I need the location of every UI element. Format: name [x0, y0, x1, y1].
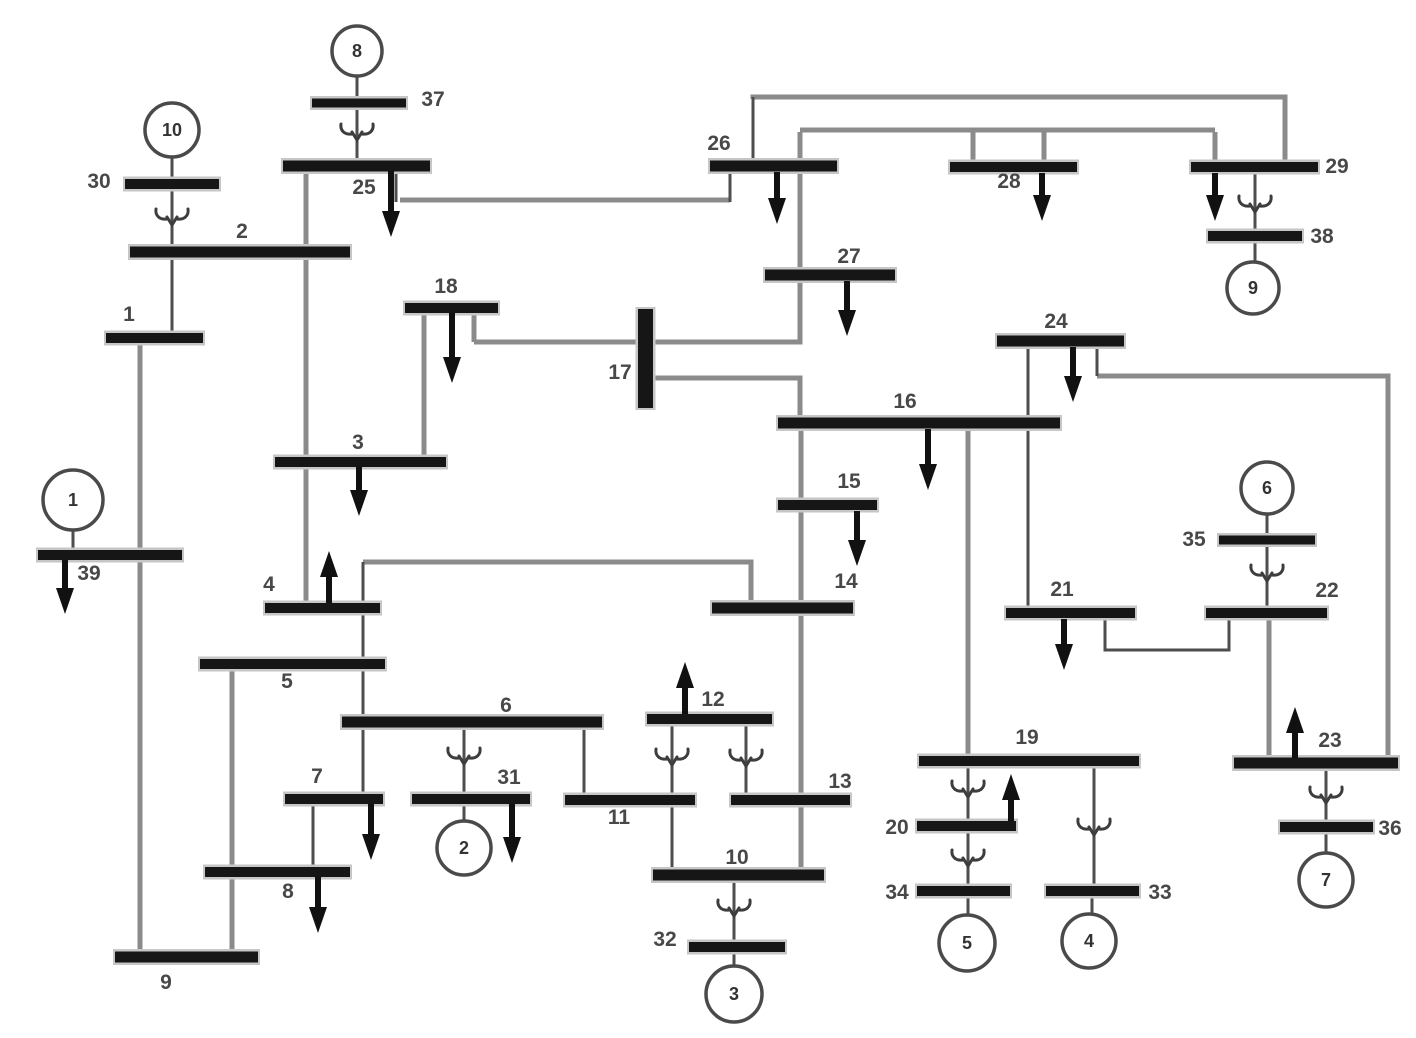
svg-text:36: 36 — [1378, 817, 1401, 840]
svg-text:6: 6 — [500, 694, 512, 717]
svg-text:24: 24 — [1044, 310, 1068, 333]
svg-text:23: 23 — [1318, 729, 1341, 752]
svg-text:8: 8 — [352, 41, 362, 61]
svg-text:25: 25 — [352, 176, 376, 199]
svg-text:9: 9 — [160, 971, 172, 994]
svg-text:38: 38 — [1310, 225, 1334, 248]
svg-text:22: 22 — [1315, 579, 1338, 602]
svg-text:37: 37 — [421, 88, 444, 111]
svg-text:21: 21 — [1050, 578, 1074, 601]
svg-text:19: 19 — [1015, 726, 1038, 749]
svg-text:10: 10 — [162, 120, 182, 140]
svg-text:7: 7 — [1321, 870, 1331, 890]
svg-text:39: 39 — [77, 562, 100, 585]
svg-text:1: 1 — [123, 303, 135, 326]
svg-text:10: 10 — [725, 846, 748, 869]
svg-text:35: 35 — [1182, 528, 1206, 551]
svg-text:4: 4 — [263, 573, 275, 596]
svg-text:16: 16 — [893, 390, 916, 413]
svg-text:9: 9 — [1248, 278, 1258, 298]
svg-text:7: 7 — [311, 765, 323, 788]
svg-text:14: 14 — [834, 570, 858, 593]
svg-text:30: 30 — [87, 170, 110, 193]
svg-text:33: 33 — [1148, 881, 1171, 904]
svg-text:11: 11 — [608, 806, 631, 829]
svg-text:5: 5 — [962, 933, 972, 953]
svg-text:28: 28 — [997, 170, 1021, 193]
svg-text:6: 6 — [1262, 478, 1272, 498]
svg-text:17: 17 — [608, 361, 631, 384]
svg-text:12: 12 — [701, 688, 724, 711]
svg-text:29: 29 — [1325, 155, 1348, 178]
svg-text:13: 13 — [828, 770, 851, 793]
svg-text:27: 27 — [837, 245, 860, 268]
svg-text:4: 4 — [1084, 931, 1094, 951]
svg-text:1: 1 — [68, 490, 78, 510]
svg-text:3: 3 — [729, 984, 739, 1004]
svg-text:18: 18 — [434, 275, 458, 298]
svg-text:20: 20 — [885, 816, 908, 839]
svg-text:15: 15 — [837, 470, 861, 493]
svg-text:2: 2 — [236, 220, 248, 243]
svg-text:31: 31 — [497, 766, 521, 789]
svg-text:5: 5 — [281, 670, 293, 693]
svg-text:26: 26 — [707, 132, 730, 155]
svg-text:3: 3 — [352, 431, 364, 454]
svg-text:2: 2 — [459, 838, 469, 858]
svg-text:32: 32 — [653, 928, 676, 951]
svg-text:8: 8 — [282, 880, 294, 903]
svg-text:34: 34 — [885, 881, 909, 904]
